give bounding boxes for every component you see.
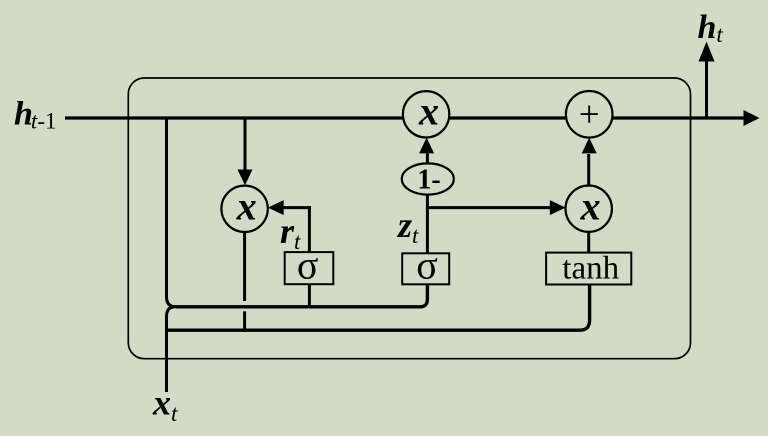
- wire: h_{t-1} main horizontal line: [65, 116, 745, 119]
- tanh box: [546, 253, 631, 285]
- sigma box (reset gate): [285, 252, 334, 284]
- multiplier circle M3 (candidate x): [566, 186, 612, 232]
- arrowhead: into reset multiplier top: [238, 170, 253, 186]
- 1- ellipse: [402, 163, 454, 194]
- wire: reset multiplier output down (below gate bus to tanh bus): [243, 311, 246, 331]
- svg-text:σ: σ: [416, 243, 438, 288]
- sigma box (update gate): [402, 253, 449, 284]
- wire: sigma_z output up to 1- ellipse: [426, 194, 429, 254]
- wire: reset multiplier output down (above gate bus): [243, 220, 246, 301]
- wire: h_t vertical output: [705, 59, 708, 118]
- wire: z branch to candidate multiplier: [427, 206, 551, 209]
- wire: 1- output up: [426, 154, 429, 165]
- wire: h branch vertical curving into gate bus: [167, 118, 176, 307]
- wire: branch down from h line to reset multiplier: [244, 118, 247, 172]
- wire: x_t input vertical curving into gate bus: [167, 307, 176, 392]
- svg-text:1-: 1-: [417, 165, 440, 196]
- wire: sigma_r input from gate bus: [308, 284, 311, 308]
- wire: feedback arrow line into reset multiplier: [282, 206, 311, 209]
- svg-text:x: x: [418, 89, 439, 134]
- multiplier circle M2 (update gate x on h line): [403, 91, 449, 137]
- wire: tanh output up to candidate multiplier: [587, 230, 590, 253]
- arrowhead: h_t up: [699, 42, 715, 62]
- wire: gate bus (upper) from x_t line to sigma_z: [176, 284, 428, 307]
- arrowhead: into reset multiplier right: [268, 200, 284, 215]
- svg-text:tanh: tanh: [562, 251, 619, 287]
- svg-text:x: x: [236, 184, 257, 229]
- wire: candidate multiplier output up to adder: [587, 154, 590, 187]
- arrowhead: into update multiplier bottom: [419, 138, 434, 154]
- wire: tanh bus (lower) from x_t line to tanh: [167, 284, 590, 330]
- arrowhead: into candidate multiplier left: [550, 200, 566, 215]
- arrowhead: h_t output right: [744, 110, 760, 126]
- multiplier circle M1 (reset gate x): [221, 186, 267, 232]
- adder circle A1: [566, 91, 613, 138]
- arrowhead: into adder bottom: [582, 138, 597, 154]
- svg-text:x: x: [580, 184, 601, 229]
- svg-text:+: +: [579, 94, 600, 135]
- wire: sigma_r output up: [308, 206, 311, 252]
- GRU cell outer box: [128, 78, 690, 359]
